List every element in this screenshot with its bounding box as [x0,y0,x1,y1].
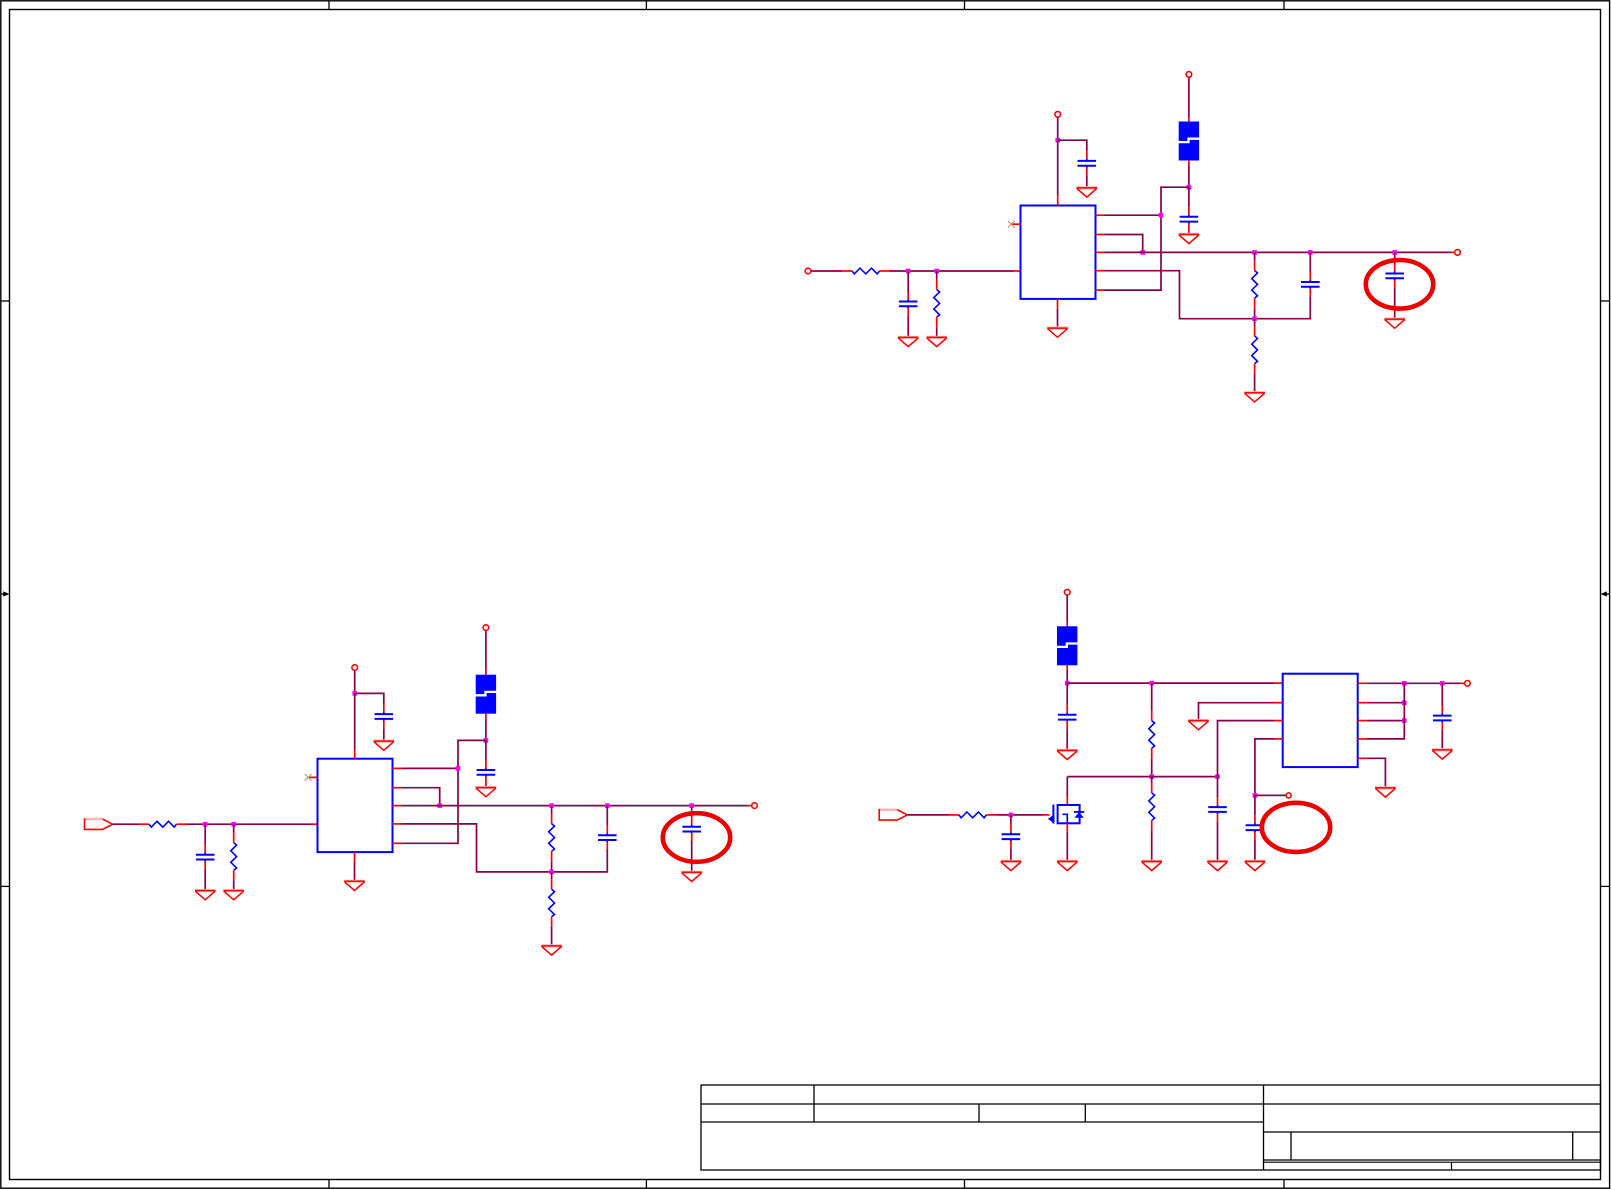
wire VCC node to C2 [1058,140,1087,151]
port P10 output of circuit 3 [1465,681,1471,687]
wire C15 to ground [1441,730,1443,749]
wire VOUT2 net of circuit 2 [402,805,748,807]
junction VOUT at C4 [1308,250,1313,255]
red highlight ellipse around C14 [1262,803,1330,852]
pin stub U2 NC [309,776,318,778]
wire VOUT3 down to C15 [1441,683,1443,706]
junction sense node [1253,793,1258,798]
wire R8 to ground [551,927,553,945]
load switch IC U3 [1283,674,1358,767]
wire R3 to FB rail [1254,308,1256,319]
pin stub F3 top [1066,623,1068,628]
capacitor C10 output circled [682,817,701,841]
resistor R10 pulldown [1149,783,1155,831]
pin stub Q1 gate [1043,814,1050,816]
title block column line B [978,1104,980,1122]
pin stub U3 pin L3 [1274,720,1283,722]
wire gate rail down to R10 [1151,777,1153,783]
junction pin1 tee circuit 2 [456,766,461,771]
capacitor C7 VCC decoupling [375,705,394,729]
pin stub U2 pin5 right [393,842,402,844]
wire C13 to ground [1010,849,1012,861]
wire VOUT net of circuit 1 [1105,251,1451,253]
wire VIN3 node to U3 pin L1 [1067,682,1274,684]
port P3 enable supply of circuit 1 [1186,72,1192,78]
port P1 input of circuit 1 [805,268,811,274]
ground below C12 [1207,861,1228,870]
junction VOUT at R3 [1252,250,1257,255]
pin stub U3 pin L2 [1274,702,1283,704]
port tag gate input of circuit 3 [879,810,907,820]
ground below C15 [1432,750,1453,759]
wire R1 to U1 pin IN [890,270,1015,272]
resistor R3 feedback upper [1252,261,1258,309]
wire tag to R5 [113,823,139,825]
left border zone ticks [1,301,10,886]
wire P2 down to junction [1057,117,1059,140]
wire C2 to ground [1086,175,1088,187]
port P6 enable supply of circuit 2 [483,625,489,631]
wire R9 to gate rail [1151,758,1153,776]
right border mid arrow [1601,591,1610,596]
pin stub U3 pin R5 [1358,757,1367,759]
wire U1 pin1 to EN vertical [1105,214,1162,216]
wire VIN3 down to C11 [1066,683,1068,705]
wire F1 to EN node [1188,166,1190,188]
junction pin2 to VOUT2 net [437,803,442,808]
pin stub U1 VIN top [1057,196,1059,205]
ground below C1 [898,337,919,346]
ground below Q1 [1057,861,1078,870]
wire C14 to ground [1254,840,1256,861]
title block size cell divider [1290,1132,1292,1160]
junction VOUT2 at C10 [689,803,694,808]
jumper F2 [475,675,497,714]
ground below C8 [476,788,497,797]
junction gate rail at R9 [1149,774,1154,779]
wire VCC2 node to C7 [355,693,384,704]
junction gate node at C13 [1009,813,1014,818]
wire gate node down to C13 [1010,815,1012,825]
wire EN node down to C3 [1188,187,1190,207]
ground below R2 [926,337,947,346]
wire VOUT2 down to R7 [551,806,553,814]
jumper F1 [1178,122,1200,161]
wire C12 to ground [1217,821,1219,860]
wire FB2 rail down to R8 [551,872,553,879]
capacitor C2 VCC decoupling [1078,151,1097,175]
junction VOUT at C5 [1392,250,1397,255]
pin stub U2 pin1 right [393,767,402,769]
wire C10 to ground [691,841,693,871]
wire C5 to ground [1394,288,1396,318]
wire R11 to Q1 gate [996,814,1043,816]
junction node IN2 at C6 [203,822,208,827]
ground below C3 [1179,234,1200,243]
capacitor C6 input filter [196,845,215,869]
junction node IN2 at R6 [231,822,236,827]
title block row line 2 [701,1121,1264,1123]
junction VOUT2 at R7 [549,803,554,808]
pin stub U2 pin2 right [393,787,402,789]
port P7 output of circuit 2 [752,803,758,809]
wire P3 to F1 [1188,77,1190,117]
transistor Q1 N-MOSFET [1048,805,1084,824]
wire F2 to EN2 node [485,719,487,741]
junction EN node [1187,185,1192,190]
title block date row divider [1451,1162,1453,1170]
pin stub port P4 [1451,251,1455,253]
capacitor C9 output [598,826,617,850]
wire VIN3 down to R9 [1151,683,1153,711]
red highlight ellipse around C10 [663,813,730,862]
resistor R1 series input [842,268,890,274]
junction FB rail at R4 [1252,316,1257,321]
junction tie at pin R2 [1402,700,1407,705]
title block row line 1 [701,1103,1601,1105]
pin stub Q1 source [1066,823,1068,832]
resistor R5 series input [139,821,187,827]
wire node IN down to R2 [936,271,938,280]
ground below U1 [1047,328,1068,337]
pin stub U2 GND bottom [354,852,356,862]
resistor R6 shunt [231,833,237,881]
wire R10 to ground [1151,830,1153,860]
wire node IN down to C1 [907,271,909,292]
wire VCC2 node to U2 top pin [354,693,356,749]
wire gate rail [1067,776,1217,778]
port P5 VCC of circuit 2 [352,665,358,671]
wire VOUT3 net [1367,682,1462,684]
pin stub U2 VIN top [354,749,356,758]
wire VOUT down to C5 [1394,252,1396,264]
junction FB2 rail at R8 [549,870,554,875]
wire R5 to U2 pin IN [187,823,312,825]
title block sheet cell divider [1572,1132,1574,1160]
right border zone ticks [1601,301,1610,886]
pin stub port P7 [748,805,752,807]
pin stub U3 pin R3 [1358,720,1367,722]
wire VOUT2 down to C10 [691,806,693,818]
wire node IN2 down to C6 [204,824,206,845]
pin stub U2 pin4 right [393,823,402,825]
junction pin2 to VOUT net [1140,250,1145,255]
regulator IC U2 [318,759,393,852]
no-connect marker on U2 NC pin [305,774,312,781]
wire VOUT2 down to C9 [606,806,608,826]
wire EN2 node to U2 pin1 net [402,740,486,843]
wire node IN2 down to R6 [233,824,235,833]
title block size row bottom lines [1264,1160,1601,1162]
wire P1 to R1 [811,270,842,272]
ground below C14 [1245,861,1266,870]
resistor R8 feedback lower [549,879,555,927]
title block column line C [1084,1104,1086,1122]
resistor R2 shunt [934,280,940,328]
wire U3 pin L4 to sense node [1255,739,1274,796]
wire U3 pin R3 to tie [1367,720,1405,722]
wire P6 to F2 [485,630,487,670]
pin stub U1 NC [1012,223,1021,225]
ground below R6 [223,891,244,900]
pin stub U1 pin5 right [1096,289,1105,291]
junction pin1 tee [1159,213,1164,218]
resistor R4 feedback lower [1252,326,1258,374]
ground below C5 [1384,319,1405,328]
wire U1 GND pin to ground [1057,309,1059,327]
ground at U3 pin R5 [1375,788,1396,797]
capacitor C5 output circled [1385,264,1404,288]
port tag input of circuit 2 [85,819,113,829]
pin stub U1 pin1 right [1096,214,1105,216]
port P2 VCC of circuit 1 [1055,112,1061,118]
pin stub U3 pin R4 [1358,738,1367,740]
pin stub F1 bottom [1188,160,1190,165]
capacitor C15 output [1433,706,1452,730]
wire sense node to port P9 [1255,794,1286,796]
title block outline [701,1085,1601,1170]
ground below U2 [344,881,365,890]
top border zone ticks [329,1,1284,10]
pin stub F2 top [485,671,487,676]
wire P8 to F3 [1066,595,1068,623]
pin stub F3 bottom [1066,665,1068,670]
wire U2 GND pin to ground [354,862,356,880]
wire C8 to ground [485,784,487,786]
wire U2 pin4 to lower FB2 rail [402,824,608,872]
junction VOUT3 at C15 [1440,681,1445,686]
junction tie at pin R3 [1402,718,1407,723]
wire sense node down to C14 [1254,795,1256,815]
wire U1 pin2 to FB net [1105,235,1143,253]
wire U3 pin L2 to ground [1199,703,1275,720]
wire C3 to ground [1188,231,1190,233]
wire EN2 node down to C8 [485,740,487,760]
regulator IC U1 [1021,206,1096,299]
pin stub U3 pin R1 [1358,682,1367,684]
wire R4 to ground [1254,374,1256,392]
pin stub Q1 drain [1066,797,1068,805]
pin stub U2 IN [311,823,318,825]
wire EN node to U1 pin1 net [1105,187,1189,290]
wire FB rail down to R4 [1254,319,1256,326]
capacitor C14 sense circled [1246,816,1265,840]
wire gate rail to Q1 drain [1066,777,1068,797]
junction gate rail at C12 branch [1215,774,1220,779]
junction VCC2 node [352,691,357,696]
junction EN2 node [484,738,489,743]
resistor R9 pullup [1149,711,1155,759]
title block column line D [1263,1085,1265,1170]
wire Q1 source to ground [1066,832,1068,861]
wire VOUT down to C4 [1309,252,1311,272]
pin stub U1 pin4 right [1096,270,1105,272]
resistor R11 gate series [949,812,997,818]
capacitor C3 enable filter [1180,207,1199,231]
pin stub U3 pin L1 [1274,682,1283,684]
pin stub U1 GND bottom [1057,299,1059,309]
wire VCC node to U1 top pin [1057,140,1059,196]
ground below C11 [1057,750,1078,759]
junction node IN at R2 [934,269,939,274]
ground below R8 [541,946,562,955]
jumper F3 [1056,626,1078,665]
pin stub F1 top [1188,117,1190,122]
capacitor C13 gate filter [1002,825,1021,849]
wire VOUT down to R3 [1254,252,1256,260]
wire C6 to ground [204,869,206,890]
capacitor C11 input filter [1058,705,1077,729]
capacitor C1 input filter [899,292,918,316]
junction VOUT3 at tie [1402,681,1407,686]
wire F3 to VIN3 node [1066,670,1068,683]
pin stub U3 pin R2 [1358,702,1367,704]
resistor R7 feedback upper [549,814,555,862]
wire U1 pin4 to lower FB rail [1105,271,1311,319]
ground below C2 [1076,188,1097,197]
junction node IN at C1 [906,269,911,274]
wire C7 to ground [383,728,385,740]
wire U2 pin1 to EN2 vertical [402,767,459,769]
junction VCC node [1055,138,1060,143]
pin stub U1 pin3 VOUT [1096,251,1105,253]
capacitor C12 timing [1208,798,1227,822]
ground below R4 [1244,393,1265,402]
left border mid arrow [1,591,10,596]
pin stub U2 pin3 VOUT2 [393,805,402,807]
ground below C13 [1001,861,1022,870]
port P9 sense of circuit 3 [1286,793,1291,798]
red highlight ellipse around C5 [1366,260,1433,309]
wire R2 to ground [936,327,938,336]
junction VOUT2 at C9 [605,803,610,808]
capacitor C4 output [1301,273,1320,297]
pin stub U3 pin L4 [1274,738,1283,740]
ground below C10 [681,872,702,881]
ground below R10 [1141,861,1162,870]
no-connect marker on U1 NC pin [1008,221,1015,228]
wire U2 pin2 to FB2 net [402,788,440,806]
wire U3 pin R2 to tie [1367,702,1405,704]
pin stub F2 bottom [485,713,487,718]
pin stub U1 IN [1014,270,1021,272]
wire tag to R11 [907,814,949,816]
junction VIN3 node [1065,681,1070,686]
wire R7 to FB2 rail [551,861,553,872]
port P4 output of circuit 1 [1455,250,1461,256]
wire C1 to ground [907,316,909,337]
capacitor C8 enable filter [477,761,496,785]
bottom border zone ticks [329,1180,1284,1189]
ground below C6 [195,891,216,900]
wire P5 down to junction [354,670,356,693]
ground below C7 [373,741,394,750]
title block column line A [813,1085,815,1122]
port P8 supply of circuit 3 [1064,589,1070,595]
pin stub port P10 [1461,682,1464,684]
junction VIN3 at R9 [1149,681,1154,686]
wire U3 pin R5 to ground [1367,758,1386,787]
wire U3 pin R4 to tie vertical [1367,683,1405,739]
wire R6 to ground [233,880,235,889]
wire C11 to ground [1066,729,1068,749]
ground at U3 pin L2 [1188,721,1209,730]
title block size row top line [1264,1131,1601,1133]
pin stub U1 pin2 right [1096,234,1105,236]
wire U3 pin L3 to C12 [1218,721,1275,798]
